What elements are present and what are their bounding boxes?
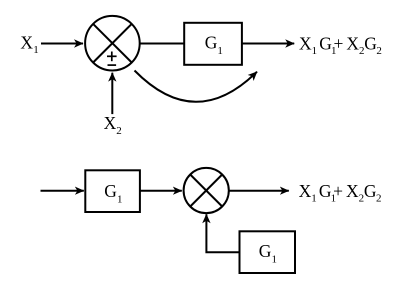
svg-text:G: G xyxy=(104,181,117,201)
svg-text:1: 1 xyxy=(272,254,278,266)
svg-text:+: + xyxy=(333,181,343,201)
wire input arrow of bottom diagram xyxy=(41,190,84,192)
svg-text:1: 1 xyxy=(312,45,318,57)
node output label top: X1G1+X2G2 xyxy=(299,33,382,57)
svg-text:X: X xyxy=(299,33,312,53)
svg-text:+: + xyxy=(334,33,344,53)
summing junction S2 xyxy=(184,168,229,213)
svg-text:G: G xyxy=(259,241,272,261)
wire feedback from block G1c into summer S2 xyxy=(206,214,239,252)
svg-text:X: X xyxy=(346,33,359,53)
svg-text:X: X xyxy=(299,181,312,201)
block G1 (top) xyxy=(184,23,242,65)
svg-text:G: G xyxy=(364,181,377,201)
svg-text:1: 1 xyxy=(117,194,123,206)
svg-text:G: G xyxy=(205,33,218,53)
svg-text:1: 1 xyxy=(33,44,39,56)
svg-text:1: 1 xyxy=(217,45,223,57)
svg-text:2: 2 xyxy=(376,193,382,205)
summing junction S1 xyxy=(85,16,140,71)
wire summer S1 to block G1a xyxy=(140,43,185,45)
wire output arrow of bottom diagram xyxy=(229,190,289,192)
svg-text:1: 1 xyxy=(311,193,317,205)
wire output arrow of top diagram xyxy=(242,43,294,45)
svg-text:2: 2 xyxy=(116,125,122,137)
wire input arrow X1 to summer S1 xyxy=(41,43,83,45)
wire curved arrow from summer S1 toward output wire xyxy=(135,71,258,102)
wire arrow block G1b to summer S2 xyxy=(140,190,182,192)
wire input arrow X2 up into summer S1 xyxy=(111,73,113,114)
svg-text:X: X xyxy=(104,113,117,133)
block G1 (bottom feedback) xyxy=(240,231,296,273)
svg-text:X: X xyxy=(20,33,33,53)
svg-text:2: 2 xyxy=(376,45,382,57)
node output label bottom: X1G1+X2G2 xyxy=(299,181,382,205)
block G1 (bottom-left) xyxy=(85,170,140,212)
svg-text:X: X xyxy=(346,181,359,201)
plus-minus sign inside summer S1 xyxy=(107,52,117,66)
svg-text:G: G xyxy=(364,33,377,53)
